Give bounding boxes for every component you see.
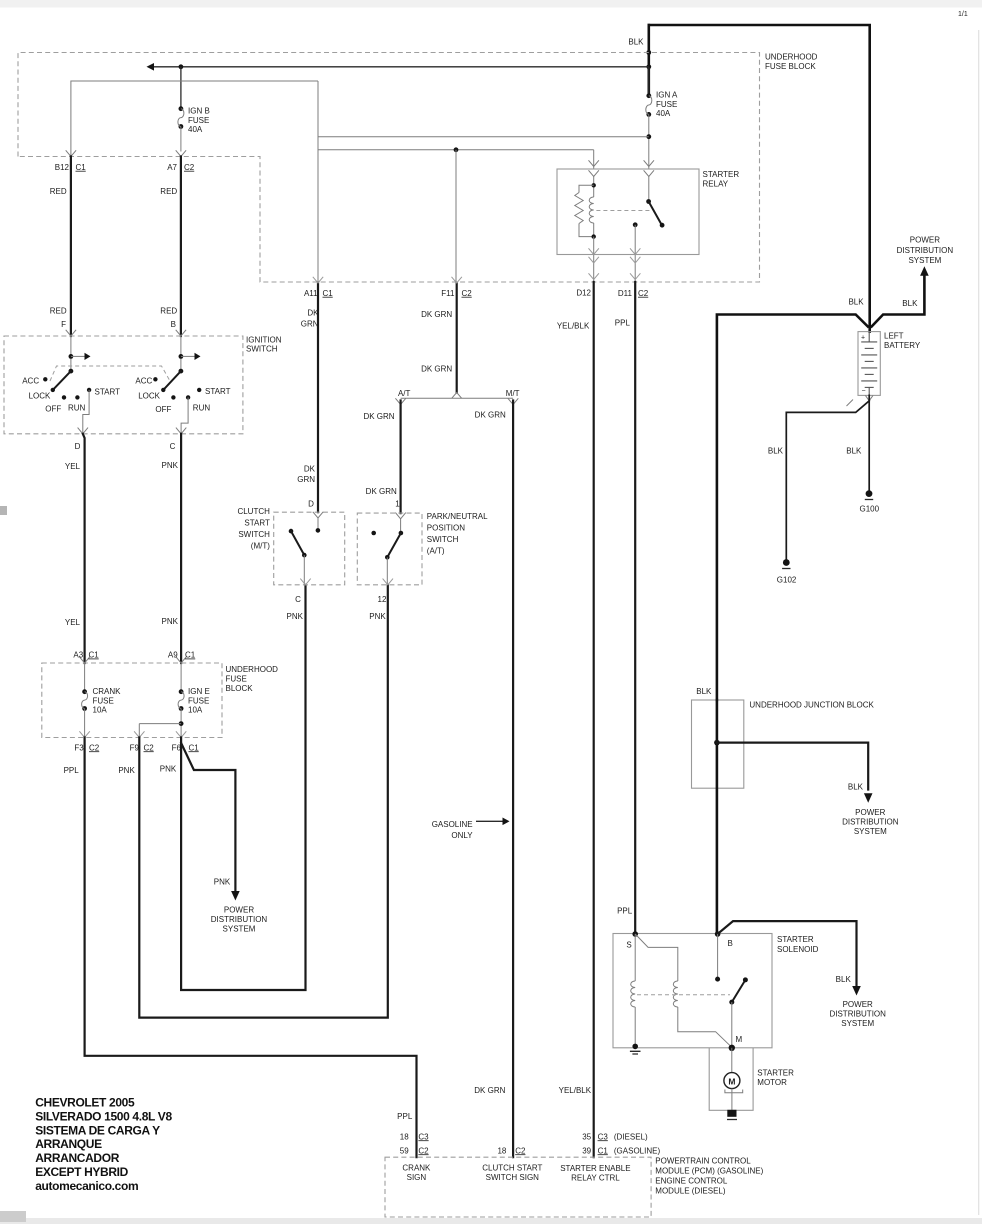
svg-text:C1: C1 xyxy=(89,651,100,660)
svg-text:RED: RED xyxy=(160,307,177,316)
wire DK GRN A/T branch to park/neutral switch xyxy=(395,398,405,404)
svg-text:POWER: POWER xyxy=(855,808,885,817)
svg-text:PNK: PNK xyxy=(369,612,386,621)
svg-text:BLOCK: BLOCK xyxy=(226,684,254,693)
svg-text:GRN: GRN xyxy=(297,475,315,484)
park/neutral switch blade xyxy=(387,533,401,557)
svg-text:S: S xyxy=(626,940,631,949)
node junction dot IGN B tap xyxy=(179,64,184,69)
node junction dot below IGN A xyxy=(646,134,651,139)
svg-text:(GASOLINE): (GASOLINE) xyxy=(614,1146,661,1155)
svg-text:C3: C3 xyxy=(418,1132,429,1141)
ignition switch pole 1 feed xyxy=(70,336,72,371)
ground G102 xyxy=(783,559,790,566)
relay switch contact to D11 xyxy=(633,222,638,227)
svg-text:A11: A11 xyxy=(304,289,318,298)
svg-text:BATTERY: BATTERY xyxy=(884,341,921,350)
svg-text:C: C xyxy=(295,595,301,604)
svg-text:UNDERHOOD: UNDERHOOD xyxy=(765,53,818,62)
svg-text:18: 18 xyxy=(497,1146,506,1155)
svg-text:DK GRN: DK GRN xyxy=(475,411,506,420)
svg-text:FUSE: FUSE xyxy=(226,674,247,683)
wire BLK battery to G102 xyxy=(786,401,869,560)
svg-text:CHEVROLET 2005: CHEVROLET 2005 xyxy=(35,1096,135,1110)
svg-text:POSITION: POSITION xyxy=(427,524,465,533)
relay coil entry connector xyxy=(589,160,599,166)
svg-text:PPL: PPL xyxy=(397,1112,413,1121)
park/neutral switch output xyxy=(386,557,388,585)
svg-text:UNDERHOOD JUNCTION BLOCK: UNDERHOOD JUNCTION BLOCK xyxy=(749,700,874,709)
pin B12 C1 connector xyxy=(66,150,76,156)
svg-text:DISTRIBUTION: DISTRIBUTION xyxy=(897,246,954,255)
wire internal F11 drop xyxy=(455,150,457,283)
svg-text:40A: 40A xyxy=(188,125,203,134)
svg-text:LOCK: LOCK xyxy=(29,391,51,400)
solenoid coil 1 xyxy=(631,981,636,1007)
svg-text:+: + xyxy=(861,335,865,342)
svg-text:FUSE BLOCK: FUSE BLOCK xyxy=(765,62,816,71)
battery box xyxy=(858,332,880,396)
underhood junction block box xyxy=(692,700,744,788)
relay switch common xyxy=(648,177,650,202)
battery plates xyxy=(868,332,870,342)
ignition switch pole 2 feed xyxy=(180,336,182,371)
ignition switch pole 2 contacts xyxy=(153,377,157,381)
page top band xyxy=(0,0,982,8)
svg-text:IGNITION: IGNITION xyxy=(246,336,282,345)
svg-text:SYSTEM: SYSTEM xyxy=(908,256,941,265)
svg-text:YEL/BLK: YEL/BLK xyxy=(559,1086,592,1095)
svg-text:BLK: BLK xyxy=(902,299,918,308)
ignition switch linkage xyxy=(50,366,170,381)
svg-text:M/T: M/T xyxy=(506,389,520,398)
svg-text:PNK: PNK xyxy=(287,612,304,621)
svg-text:ACC: ACC xyxy=(22,377,39,386)
pin C connector xyxy=(176,428,186,434)
clutch switch output xyxy=(303,555,305,585)
pin F9 C2 connector xyxy=(134,731,144,737)
svg-text:ACC: ACC xyxy=(135,376,152,385)
wire PNK F6 to power distribution xyxy=(181,743,235,891)
svg-text:DISTRIBUTION: DISTRIBUTION xyxy=(211,915,268,924)
park/neutral switch contacts xyxy=(399,531,404,536)
svg-text:B12: B12 xyxy=(55,163,70,172)
svg-text:A3: A3 xyxy=(73,651,83,660)
relay coil output to D12 xyxy=(593,237,595,282)
svg-text:POWER: POWER xyxy=(843,1000,873,1009)
svg-text:STARTER: STARTER xyxy=(777,935,814,944)
svg-text:RUN: RUN xyxy=(193,404,211,413)
node junction dot at fuse block boundary xyxy=(646,50,651,55)
scan artifact bottom left xyxy=(0,1211,26,1222)
node junction dot in junction block xyxy=(714,740,720,746)
svg-text:D: D xyxy=(75,442,81,451)
svg-text:A7: A7 xyxy=(167,163,177,172)
svg-text:START: START xyxy=(244,518,270,527)
wire YEL ignition D to A3 xyxy=(83,434,85,663)
svg-text:A9: A9 xyxy=(168,651,178,660)
wire DK GRN A11 to clutch switch D xyxy=(317,283,319,512)
svg-text:59: 59 xyxy=(400,1146,409,1155)
wire PPL F3 to PCM crank sign xyxy=(85,738,417,1158)
svg-text:SIGN: SIGN xyxy=(407,1173,427,1182)
wire RED B12 to ignition F xyxy=(70,157,72,337)
wire internal horizontal to IGN A node xyxy=(318,136,649,138)
svg-text:BLK: BLK xyxy=(848,298,864,307)
pin F6 C1 connector xyxy=(176,731,186,737)
svg-text:automecanico.com: automecanico.com xyxy=(35,1179,138,1193)
wire BLK through junction block to solenoid B xyxy=(716,700,719,934)
powertrain control module box xyxy=(385,1157,651,1217)
svg-text:(M/T): (M/T) xyxy=(251,541,270,550)
svg-text:GASOLINE: GASOLINE xyxy=(432,820,473,829)
svg-text:BLK: BLK xyxy=(768,447,784,456)
solenoid switch contact from B xyxy=(717,934,719,979)
pin D entry connector xyxy=(313,512,323,518)
svg-text:C2: C2 xyxy=(89,743,100,752)
svg-text:F11: F11 xyxy=(441,289,455,298)
ignition switch pole 1 contacts xyxy=(43,377,47,381)
svg-text:C3: C3 xyxy=(598,1132,609,1141)
svg-text:BLK: BLK xyxy=(836,975,852,984)
node junction dot F11 tap xyxy=(454,147,459,152)
svg-text:SWITCH: SWITCH xyxy=(427,535,459,544)
node junction dot arrow line xyxy=(646,64,651,69)
wire BLK junction block to power distribution xyxy=(717,743,868,790)
relay resistor xyxy=(579,185,594,192)
svg-text:C2: C2 xyxy=(638,289,649,298)
svg-text:CRANK: CRANK xyxy=(402,1163,431,1172)
svg-text:1/1: 1/1 xyxy=(958,11,968,18)
starter motor frame xyxy=(709,1048,753,1111)
clutch switch contacts xyxy=(316,528,321,533)
fuse IGN E 10A xyxy=(180,663,182,692)
solenoid coil 2 xyxy=(673,981,678,1007)
svg-text:10A: 10A xyxy=(93,706,108,715)
svg-text:C2: C2 xyxy=(462,289,473,298)
ground G100 xyxy=(866,490,873,497)
svg-text:FUSE: FUSE xyxy=(93,696,114,705)
svg-text:10A: 10A xyxy=(188,706,203,715)
svg-text:FUSE: FUSE xyxy=(188,696,209,705)
page right faint scan line xyxy=(978,30,979,1215)
wire DK GRN M/T branch to PCM clutch start switch sign xyxy=(508,398,518,404)
pin F3 C2 connector xyxy=(79,731,89,737)
wire off-page arrow line xyxy=(154,66,649,68)
svg-text:LEFT: LEFT xyxy=(884,332,904,341)
svg-text:DK GRN: DK GRN xyxy=(421,310,452,319)
svg-text:POWERTRAIN CONTROL: POWERTRAIN CONTROL xyxy=(655,1157,751,1166)
wire internal horizontal to relay coil and F11 xyxy=(318,149,594,151)
svg-text:G102: G102 xyxy=(777,576,797,585)
svg-text:SISTEMA DE CARGA Y: SISTEMA DE CARGA Y xyxy=(35,1123,160,1137)
svg-text:SYSTEM: SYSTEM xyxy=(841,1019,874,1028)
svg-text:BLK: BLK xyxy=(846,447,862,456)
svg-text:OFF: OFF xyxy=(155,405,171,414)
wire BLK solenoid B to power distribution xyxy=(718,921,857,985)
svg-text:12: 12 xyxy=(378,595,387,604)
svg-text:BLK: BLK xyxy=(696,687,712,696)
svg-text:CLUTCH START: CLUTCH START xyxy=(482,1163,542,1172)
relay switch blade xyxy=(649,202,662,225)
relay switch entry connector xyxy=(644,160,654,166)
pin A3 C1 connector xyxy=(79,657,89,663)
svg-text:PARK/NEUTRAL: PARK/NEUTRAL xyxy=(427,512,488,521)
pin 1 entry connector xyxy=(395,513,405,519)
clutch switch blade xyxy=(291,531,304,555)
svg-text:MODULE (DIESEL): MODULE (DIESEL) xyxy=(655,1187,726,1196)
fuse IGN A 40A xyxy=(648,67,650,96)
svg-text:YEL/BLK: YEL/BLK xyxy=(557,322,590,331)
node B terminal xyxy=(715,931,721,937)
underhood fuse block 2 boundary xyxy=(42,663,222,738)
svg-text:FUSE: FUSE xyxy=(656,100,677,109)
svg-text:DISTRIBUTION: DISTRIBUTION xyxy=(829,1010,886,1019)
svg-text:C2: C2 xyxy=(144,743,155,752)
svg-text:RELAY: RELAY xyxy=(703,180,729,189)
wire motor to ground xyxy=(731,1089,733,1111)
ignition switch pole 2 output to C xyxy=(181,397,188,433)
clutch start switch box xyxy=(274,512,345,585)
svg-text:PNK: PNK xyxy=(214,878,231,887)
solenoid coil ground xyxy=(632,1044,638,1050)
svg-text:SOLENOID: SOLENOID xyxy=(777,945,819,954)
wire BLK battery to power distribution (right) xyxy=(872,276,925,327)
svg-text:40A: 40A xyxy=(656,109,671,118)
svg-text:D11: D11 xyxy=(618,289,633,298)
pin A11 C1 connector xyxy=(313,277,323,283)
ignition switch pole 2 blade xyxy=(163,371,181,390)
wire RED A7 to ignition B xyxy=(180,157,182,337)
svg-text:PNK: PNK xyxy=(162,617,179,626)
wire PPL D11 to solenoid S xyxy=(634,282,636,934)
svg-text:F9: F9 xyxy=(130,743,140,752)
svg-text:OFF: OFF xyxy=(45,404,61,413)
svg-text:DK: DK xyxy=(304,465,316,474)
starter relay box xyxy=(557,169,699,255)
svg-text:18: 18 xyxy=(400,1132,409,1141)
pin A7 C2 connector xyxy=(176,150,186,156)
page bottom band xyxy=(0,1218,982,1224)
svg-text:BLK: BLK xyxy=(848,783,864,792)
svg-text:PNK: PNK xyxy=(160,764,177,773)
wire PNK F6 to clutch switch pin C xyxy=(181,585,305,990)
svg-text:PPL: PPL xyxy=(615,319,631,328)
svg-text:EXCEPT HYBRID: EXCEPT HYBRID xyxy=(35,1165,128,1179)
svg-text:G100: G100 xyxy=(860,505,880,514)
node A/T-M/T split xyxy=(452,393,462,399)
svg-text:DISTRIBUTION: DISTRIBUTION xyxy=(842,817,899,826)
svg-text:POWER: POWER xyxy=(910,235,940,244)
svg-text:CRANK: CRANK xyxy=(93,687,122,696)
svg-text:SYSTEM: SYSTEM xyxy=(223,925,256,934)
svg-text:MODULE (PCM) (GASOLINE): MODULE (PCM) (GASOLINE) xyxy=(655,1167,763,1176)
ignition switch pole 1 blade xyxy=(53,371,71,390)
svg-text:39: 39 xyxy=(582,1146,591,1155)
svg-text:(A/T): (A/T) xyxy=(427,547,445,556)
ground starter motor xyxy=(727,1110,736,1117)
svg-text:ENGINE CONTROL: ENGINE CONTROL xyxy=(655,1177,728,1186)
svg-text:IGN E: IGN E xyxy=(188,687,210,696)
svg-text:35: 35 xyxy=(582,1132,591,1141)
svg-text:C1: C1 xyxy=(185,651,196,660)
wire internal vertical to A11 xyxy=(317,81,319,283)
svg-text:D12: D12 xyxy=(576,289,591,298)
battery negative exit connector xyxy=(865,395,873,400)
svg-text:ARRANCADOR: ARRANCADOR xyxy=(35,1151,120,1165)
svg-text:DK GRN: DK GRN xyxy=(421,365,452,374)
svg-text:A/T: A/T xyxy=(398,389,411,398)
pin A9 C1 connector xyxy=(176,657,186,663)
svg-text:STARTER: STARTER xyxy=(703,170,740,179)
svg-text:C: C xyxy=(170,442,176,451)
svg-text:POWER: POWER xyxy=(224,906,254,915)
svg-text:(DIESEL): (DIESEL) xyxy=(614,1132,648,1141)
svg-text:FUSE: FUSE xyxy=(188,116,209,125)
svg-text:C2: C2 xyxy=(515,1146,526,1155)
svg-text:B: B xyxy=(171,320,176,329)
motor M xyxy=(724,1073,740,1089)
svg-text:M: M xyxy=(728,1076,735,1086)
pin F11 C2 connector xyxy=(452,277,462,283)
svg-text:PNK: PNK xyxy=(162,461,179,470)
svg-text:GRN: GRN xyxy=(301,320,319,329)
svg-text:CLUTCH: CLUTCH xyxy=(237,507,270,516)
starter solenoid box xyxy=(613,934,772,1048)
svg-text:BLK: BLK xyxy=(628,38,644,47)
svg-text:PPL: PPL xyxy=(64,766,80,775)
svg-text:DK GRN: DK GRN xyxy=(363,412,394,421)
svg-text:F3: F3 xyxy=(74,743,84,752)
svg-text:D: D xyxy=(308,500,314,509)
svg-text:RED: RED xyxy=(50,307,67,316)
relay coil xyxy=(593,177,595,198)
svg-text:STARTER ENABLE: STARTER ENABLE xyxy=(560,1164,630,1173)
svg-text:DK GRN: DK GRN xyxy=(474,1086,505,1095)
svg-text:F: F xyxy=(61,320,66,329)
svg-text:SWITCH SIGN: SWITCH SIGN xyxy=(486,1173,540,1182)
solenoid switch blade xyxy=(732,980,746,1002)
svg-text:C1: C1 xyxy=(189,743,200,752)
svg-text:ARRANQUE: ARRANQUE xyxy=(35,1137,102,1151)
ignition switch pole 1 output to D xyxy=(83,390,89,434)
relay linkage xyxy=(596,210,651,212)
svg-text:YEL: YEL xyxy=(65,462,81,471)
svg-text:C1: C1 xyxy=(323,289,334,298)
svg-text:SILVERADO 1500 4.8L V8: SILVERADO 1500 4.8L V8 xyxy=(35,1109,172,1123)
svg-text:M: M xyxy=(736,1035,743,1044)
svg-text:ONLY: ONLY xyxy=(451,831,473,840)
underhood fuse block boundary xyxy=(18,53,760,283)
wire DK GRN F11 to A/T-M/T split xyxy=(456,283,458,393)
svg-text:1: 1 xyxy=(395,500,400,509)
svg-text:UNDERHOOD: UNDERHOOD xyxy=(226,665,279,674)
pin F connector xyxy=(66,330,76,336)
node S terminal xyxy=(632,931,638,937)
svg-text:MOTOR: MOTOR xyxy=(757,1078,787,1087)
svg-text:C1: C1 xyxy=(76,163,87,172)
svg-text:SYSTEM: SYSTEM xyxy=(854,827,887,836)
ignition switch box xyxy=(4,336,243,434)
svg-text:STARTER: STARTER xyxy=(757,1068,794,1077)
svg-text:IGN A: IGN A xyxy=(656,91,678,100)
wire PNK F9 to park/neutral switch pin 12 xyxy=(139,585,387,1018)
svg-text:SWITCH: SWITCH xyxy=(246,345,278,354)
svg-text:DK GRN: DK GRN xyxy=(366,487,397,496)
svg-text:PNK: PNK xyxy=(118,766,135,775)
solenoid switch output to M xyxy=(731,1002,733,1048)
fuse IGN B 40A xyxy=(180,67,182,109)
svg-text:START: START xyxy=(95,388,121,397)
splice mark xyxy=(847,400,854,407)
pin D connector xyxy=(78,428,88,434)
svg-text:START: START xyxy=(205,387,231,396)
svg-text:YEL: YEL xyxy=(65,618,81,627)
node M terminal xyxy=(729,1045,735,1051)
svg-text:RED: RED xyxy=(160,187,177,196)
svg-text:PPL: PPL xyxy=(617,906,633,915)
svg-text:C1: C1 xyxy=(598,1146,609,1155)
svg-text:−: − xyxy=(862,388,866,395)
svg-text:RED: RED xyxy=(50,187,67,196)
fuse CRANK 10A xyxy=(84,663,86,692)
wire internal feed to B12 xyxy=(71,81,318,157)
svg-text:LOCK: LOCK xyxy=(138,391,160,400)
svg-text:B: B xyxy=(728,939,733,948)
wire BLK battery to junction block xyxy=(717,315,868,701)
svg-text:IGN B: IGN B xyxy=(188,107,210,116)
park/neutral position switch box xyxy=(357,513,422,585)
scan artifact left edge xyxy=(0,506,7,515)
node junction dot IGN E output xyxy=(179,721,184,726)
svg-text:SWITCH: SWITCH xyxy=(238,530,270,539)
svg-text:C2: C2 xyxy=(184,163,195,172)
solenoid pull-in coil feed xyxy=(634,934,636,981)
wire PNK ignition C to A9 xyxy=(180,434,182,663)
wire internal F9 branch xyxy=(139,724,181,738)
svg-text:C2: C2 xyxy=(418,1146,429,1155)
svg-text:RELAY CTRL: RELAY CTRL xyxy=(571,1174,620,1183)
pin B connector xyxy=(176,330,186,336)
wire YEL/BLK D12 to PCM starter enable relay ctrl xyxy=(593,282,595,1157)
svg-text:RUN: RUN xyxy=(68,404,86,413)
svg-text:DK: DK xyxy=(307,309,319,318)
wire M terminal to motor xyxy=(731,1048,733,1073)
wire BLK battery to G100 xyxy=(868,395,870,491)
wire internal relay coil drop xyxy=(593,150,595,169)
wire BLK main feed from battery top xyxy=(649,25,870,332)
solenoid linkage xyxy=(637,994,730,996)
